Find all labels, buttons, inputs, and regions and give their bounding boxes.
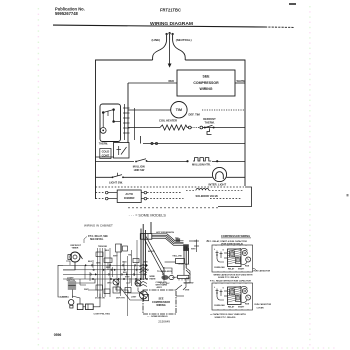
mullion heater element <box>193 158 211 161</box>
short inner wire <box>96 156 114 158</box>
cabinet harness rows <box>63 265 147 279</box>
svg-text:RED: RED <box>185 264 190 266</box>
svg-text:WIRING IN CABINET: WIRING IN CABINET <box>84 223 113 227</box>
scan artifact dash top right <box>289 3 296 5</box>
svg-text:THERM.: THERM. <box>205 121 215 125</box>
svg-text:2150649: 2150649 <box>158 319 170 323</box>
dashed wire some models top <box>96 186 245 188</box>
svg-text:HARN: HARN <box>150 278 156 281</box>
ptc-no-cap bottom labels <box>214 304 250 309</box>
wires joining column <box>162 262 190 290</box>
ptc-no-cap detail box <box>212 283 253 310</box>
run capacitor cover label <box>255 303 272 309</box>
svg-text:HND SW: HND SW <box>134 168 145 172</box>
connector circles <box>188 126 191 129</box>
svg-text:RUN CAPACITOR: RUN CAPACITOR <box>254 270 271 273</box>
svg-text:DEFROST: DEFROST <box>203 117 216 121</box>
svg-text:COMPRESSOR WIRING: COMPRESSOR WIRING <box>221 234 250 238</box>
wires to compressor <box>116 287 143 301</box>
wire to mullion heater <box>147 161 187 163</box>
svg-text:SEE: SEE <box>202 75 210 79</box>
svg-text:RED: RED <box>106 267 111 269</box>
svg-text:ASSY: ASSY <box>157 286 163 289</box>
svg-text:P.T.C. RELAY, SEE: P.T.C. RELAY, SEE <box>88 235 108 238</box>
svg-text:0596: 0596 <box>54 333 62 337</box>
ptc-with-cap pins <box>216 251 228 263</box>
cold control box <box>100 104 121 142</box>
svg-text:OVERLOAD: OVERLOAD <box>214 266 225 269</box>
harness end block <box>183 244 189 251</box>
svg-text:WHEN CAPACITOR IS NOT USED WIT: WHEN CAPACITOR IS NOT USED WITH <box>214 274 253 277</box>
label MULLION HTR SW <box>133 164 145 172</box>
interior light lamp <box>212 167 226 181</box>
top connector block <box>140 234 152 240</box>
svg-text:5995267748: 5995267748 <box>55 11 78 16</box>
coil heater element <box>160 125 188 130</box>
tiny wire labels <box>84 246 148 300</box>
heater switch box <box>114 143 130 159</box>
svg-text:GRN: GRN <box>96 263 101 265</box>
terminal strip ticks on bus <box>123 104 130 140</box>
defrost thermostat switch <box>191 125 215 134</box>
mullion switch row wire <box>96 161 135 163</box>
publication number block <box>55 6 85 16</box>
svg-text:— · SOME MODELS: — · SOME MODELS <box>147 316 168 318</box>
ptc-with-cap bottom labels <box>214 266 250 271</box>
wire neutral-side lead <box>173 40 186 60</box>
mid circles <box>113 279 119 285</box>
wire defrost timer to right bus <box>202 109 245 111</box>
defrost timer motor TIM <box>171 102 187 118</box>
heading 1 <box>207 240 248 246</box>
ground lead with arrow <box>169 40 171 64</box>
svg-text:TERM BD: TERM BD <box>98 246 108 248</box>
compressor box <box>143 290 176 314</box>
svg-text:DEF. TIM: DEF. TIM <box>189 112 201 116</box>
auto icemaker box <box>117 190 141 203</box>
svg-text:FRT21TBC: FRT21TBC <box>160 7 181 12</box>
svg-text:SOME P.T.C. RELAYS: SOME P.T.C. RELAYS <box>218 276 240 279</box>
harness ribbon to right <box>152 234 184 246</box>
stub tick <box>140 136 142 144</box>
svg-text:WIRING: WIRING <box>156 304 165 307</box>
svg-text:SOME P.T.C. RELAYS: SOME P.T.C. RELAYS <box>215 316 237 319</box>
note ptc relay see detail <box>88 235 108 241</box>
mullion heater switch blade <box>136 159 146 162</box>
see-compressor-wiring box <box>177 70 235 96</box>
svg-text:RED: RED <box>169 79 175 83</box>
svg-text:RUN: RUN <box>245 304 250 306</box>
schematic outer box (top edge with plug gap, left, right, bottom) <box>96 60 246 199</box>
svg-text:▲ CAPACITOR IS ONLY USED WITH: ▲ CAPACITOR IS ONLY USED WITH <box>210 313 246 316</box>
svg-text:BLK: BLK <box>105 250 110 252</box>
svg-text:RELAY: RELAY <box>228 306 235 309</box>
misc connecting wires <box>58 265 100 307</box>
leader from harness <box>176 270 190 296</box>
svg-text:TIMER: TIMER <box>72 248 79 250</box>
solenoid valve coil <box>196 189 209 191</box>
left bus wire <box>127 83 129 143</box>
svg-text:DEF HTR: DEF HTR <box>116 298 125 300</box>
light switch label <box>67 277 76 282</box>
svg-text:WIRING: WIRING <box>199 87 212 91</box>
svg-text:COVER: COVER <box>257 307 265 309</box>
label DEFROST THERM. <box>203 117 216 124</box>
icemaker connectors left <box>96 191 118 200</box>
harness end bracket <box>189 240 199 253</box>
svg-text:COMPRESSOR: COMPRESSOR <box>193 81 219 85</box>
harness wedge <box>145 237 165 281</box>
label box COLD CONT <box>100 149 111 159</box>
svg-text:WHT: WHT <box>191 248 196 250</box>
svg-text:RUN CAPACITOR: RUN CAPACITOR <box>255 303 272 306</box>
cold control contacts <box>102 109 120 128</box>
svg-text:BLACK: BLACK <box>148 250 156 253</box>
ptc-no-cap pin labels <box>214 287 225 290</box>
pin bar connector <box>178 275 189 278</box>
connector blocks on bundle <box>96 244 139 294</box>
power plug prongs <box>166 33 173 41</box>
svg-text:AUTO: AUTO <box>125 192 133 196</box>
svg-text:WHT: WHT <box>125 277 130 279</box>
wire WHITE from compressor box <box>235 82 245 84</box>
svg-text:LIMIT: LIMIT <box>131 297 137 299</box>
leader line <box>84 237 87 244</box>
svg-text:COIL HEATER: COIL HEATER <box>159 119 177 123</box>
svg-text:TIM: TIM <box>176 108 182 112</box>
small boxes <box>77 304 83 310</box>
svg-text:ORG: ORG <box>122 262 127 264</box>
dashed bottom wire <box>128 207 218 209</box>
svg-text:OVERLOAD: OVERLOAD <box>214 304 225 307</box>
svg-text:LIGHT SW.: LIGHT SW. <box>109 181 123 185</box>
header rule <box>53 25 294 27</box>
central harness bundle <box>141 222 151 280</box>
ptc-no-cap relay block <box>228 287 242 305</box>
small box <box>176 259 185 264</box>
wire lamp to bus <box>227 176 245 178</box>
svg-text:(LINE): (LINE) <box>152 38 161 42</box>
parallel stub wire <box>134 108 136 140</box>
svg-text:WHT: WHT <box>113 256 118 258</box>
svg-text:START: START <box>238 268 245 271</box>
svg-text:WHT: WHT <box>84 289 89 291</box>
svg-text:GRN: GRN <box>185 290 190 292</box>
icemaker connectors right <box>141 191 241 200</box>
light switch body <box>68 282 76 290</box>
svg-text:COLD: COLD <box>102 150 110 154</box>
wire to interior light <box>123 176 212 178</box>
svg-text:START: START <box>238 306 245 309</box>
svg-text:WHITE: WHITE <box>237 79 246 83</box>
svg-text:(NEUTRAL): (NEUTRAL) <box>176 38 192 42</box>
harness vertical drop <box>184 247 188 271</box>
svg-text:CONT PNL HSG: CONT PNL HSG <box>94 313 111 315</box>
ptc-no-cap pins <box>216 289 228 301</box>
svg-text:ICEMKR: ICEMKR <box>124 196 135 200</box>
wire RED to compressor box <box>128 82 177 84</box>
svg-text:YELLOW: YELLOW <box>172 256 182 258</box>
svg-text:INTER. LIGHT: INTER. LIGHT <box>209 183 227 187</box>
ptc-with-cap relay block <box>228 249 242 267</box>
ptc-with-cap pin labels <box>214 249 225 252</box>
svg-text:SEE DETAIL: SEE DETAIL <box>90 238 104 241</box>
defrost timer label <box>71 245 82 250</box>
light switch <box>96 176 113 178</box>
svg-text:MULLION: MULLION <box>133 164 145 168</box>
svg-text:BLK: BLK <box>123 272 128 274</box>
wire to defrost timer <box>128 109 171 111</box>
svg-text:DOOR SW: DOOR SW <box>184 282 194 284</box>
right bracket some models <box>218 187 252 207</box>
cold control sensor bulb <box>100 127 106 133</box>
wire row to bus <box>143 143 245 145</box>
wire defrost therm to bus <box>215 127 245 129</box>
wire to coil heater <box>128 127 160 129</box>
note between boxes <box>210 274 253 283</box>
svg-text:ORG: ORG <box>107 283 112 285</box>
svg-text:MULLION HTR.: MULLION HTR. <box>192 163 211 167</box>
svg-text:NO: NO <box>175 238 178 240</box>
ptc-with-cap detail box <box>212 245 253 272</box>
svg-text:BLK: BLK <box>88 261 93 263</box>
cabinet harness verticals <box>98 240 138 316</box>
dark oval connector <box>161 275 168 280</box>
svg-text:THERM.: THERM. <box>99 143 108 146</box>
inline connectors <box>91 265 93 267</box>
svg-text:P.T.C. RLY: P.T.C. RLY <box>160 283 170 285</box>
wire mullion heater to bus <box>212 161 245 163</box>
svg-text:RUN: RUN <box>245 266 250 268</box>
wire line-side lead <box>153 40 167 60</box>
svg-text:WHT: WHT <box>186 278 191 280</box>
svg-text:TO HARN ASSY: TO HARN ASSY <box>157 270 173 273</box>
svg-text:RELAY: RELAY <box>228 268 235 271</box>
bulb <box>69 300 74 305</box>
footnote <box>210 313 246 319</box>
svg-text:· · · = SOME MODELS: · · · = SOME MODELS <box>129 214 167 218</box>
ptc-with-cap start device circles <box>242 251 247 256</box>
wire labels right <box>148 250 191 280</box>
svg-text:P.T.C. RELAY WITHOUT RUN CAPAC: P.T.C. RELAY WITHOUT RUN CAPACITOR <box>210 279 251 282</box>
ptc-no-cap start device circles <box>242 289 247 294</box>
svg-text:SOLENOID VALVE: SOLENOID VALVE <box>196 194 219 198</box>
defrost timer body <box>70 252 80 262</box>
